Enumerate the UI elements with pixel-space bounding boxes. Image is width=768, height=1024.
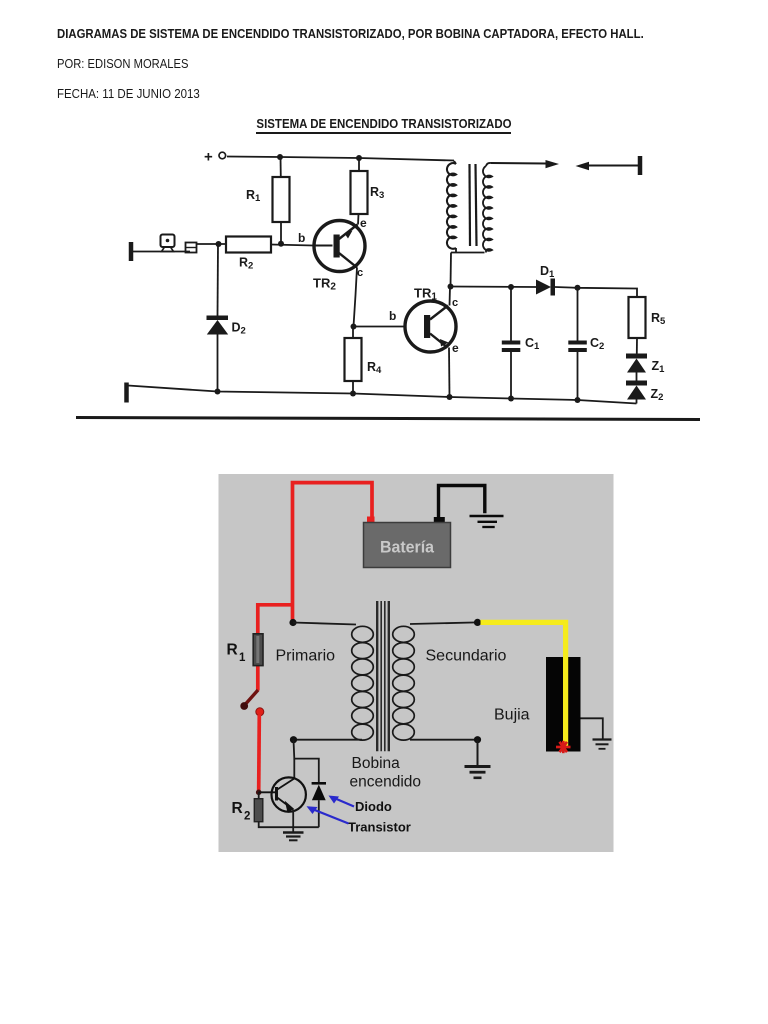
spark star bbox=[556, 741, 571, 753]
wire TR1 emitter down to ground rail bbox=[448, 348, 451, 398]
ground rail terminal bar bbox=[124, 383, 129, 403]
wire input lead bbox=[133, 251, 190, 253]
primary winding loops bbox=[352, 626, 374, 740]
wire base node to TR1 bbox=[354, 326, 407, 328]
ground battery negative bbox=[470, 515, 504, 518]
date line bbox=[57, 87, 200, 101]
arrow to transistor blue bbox=[311, 809, 349, 824]
node dot primary top bbox=[289, 619, 296, 626]
svg-text:C1: C1 bbox=[525, 336, 540, 352]
document title line bbox=[57, 27, 644, 41]
wire R1 top lead bbox=[280, 157, 282, 177]
transformer core bbox=[376, 601, 378, 751]
ground transistor emitter bbox=[292, 827, 294, 832]
wire top rail bbox=[227, 157, 454, 161]
svg-text:Primario: Primario bbox=[276, 648, 336, 665]
spark plug electrode yellow bbox=[563, 657, 568, 746]
svg-text:e: e bbox=[452, 341, 459, 355]
node junction dot top rail R1 bbox=[277, 154, 283, 160]
diode D2 bbox=[207, 316, 229, 321]
baseline rule under schematic bbox=[76, 418, 700, 420]
svg-text:R: R bbox=[227, 642, 238, 659]
svg-text:C2: C2 bbox=[590, 336, 604, 352]
svg-text:D1: D1 bbox=[540, 264, 555, 280]
resistor R1 bbox=[273, 177, 290, 222]
wire TR2 collector down to node bbox=[354, 268, 358, 327]
spark gap arrow left bbox=[576, 162, 590, 171]
svg-text:Z1: Z1 bbox=[652, 359, 666, 375]
resistor R2 body bbox=[258, 792, 260, 800]
wire R1 bottom lead to base node bbox=[280, 222, 282, 244]
svg-text:R5: R5 bbox=[651, 311, 666, 327]
resistor R3 bbox=[351, 171, 368, 214]
svg-text:Z2: Z2 bbox=[651, 387, 664, 403]
node dot secondary top bbox=[474, 619, 481, 626]
ground secondary bbox=[477, 740, 479, 766]
zener diode Z1 bbox=[626, 354, 647, 359]
switch blade bbox=[244, 690, 258, 706]
wire R3 to TR2 emitter bbox=[357, 214, 360, 225]
svg-text:c: c bbox=[452, 297, 458, 309]
resistor R1 body bbox=[256, 663, 260, 691]
node junction dot ground R4 bbox=[350, 391, 356, 397]
battery positive terminal bbox=[367, 517, 375, 524]
wire battery negative black bbox=[439, 486, 485, 519]
wire ground rail bbox=[128, 386, 637, 404]
node junction dot collector node bbox=[448, 284, 454, 290]
capacitor C1 bbox=[510, 287, 512, 341]
diode D1 bbox=[536, 280, 551, 295]
svg-text:Diodo: Diodo bbox=[355, 799, 392, 814]
svg-text:R1: R1 bbox=[246, 188, 261, 204]
transformer T1 primary winding bbox=[447, 161, 456, 249]
svg-text:R: R bbox=[232, 800, 243, 817]
node junction dot C2 branch bbox=[575, 285, 581, 291]
svg-text:R3: R3 bbox=[370, 185, 384, 201]
svg-text:Batería: Batería bbox=[380, 538, 435, 557]
node junction dot ground TR1 bbox=[447, 394, 453, 400]
transformer T1 core bbox=[468, 164, 471, 246]
battery body bbox=[364, 523, 451, 568]
wire R4 bottom lead bbox=[352, 381, 354, 394]
transistor TR1 bbox=[405, 301, 456, 352]
svg-text:D2: D2 bbox=[232, 321, 246, 337]
wire TR1 collector up to node bbox=[449, 287, 452, 306]
svg-text:encendido: encendido bbox=[350, 774, 422, 791]
author line bbox=[57, 57, 188, 71]
resistor R2 bbox=[226, 237, 271, 253]
resistor R5 bbox=[629, 297, 646, 338]
svg-text:b: b bbox=[298, 231, 305, 245]
wire transformer bottom tie bbox=[451, 248, 485, 253]
arrow to diode blue bbox=[333, 798, 354, 807]
wire Z2 to ground rail bbox=[636, 400, 638, 404]
node junction dot ground C2 bbox=[575, 397, 581, 403]
wire pickup to R2 bbox=[197, 243, 227, 245]
transistor Q1 bbox=[272, 777, 306, 811]
input terminal bar bbox=[129, 242, 134, 261]
node dot base bbox=[256, 790, 262, 796]
pickup connector box bbox=[186, 243, 197, 253]
wire secondary to spark gap bbox=[491, 162, 546, 165]
node junction dot top rail R3 bbox=[356, 155, 362, 161]
transistor TR2 bbox=[314, 221, 365, 272]
node junction dot TR1 base node bbox=[351, 324, 357, 330]
node junction dot base node bbox=[278, 241, 284, 247]
svg-text:e: e bbox=[360, 216, 367, 230]
wire primary bottom bbox=[293, 739, 362, 741]
wire Z1 to Z2 bbox=[636, 373, 638, 381]
svg-text:TR2: TR2 bbox=[313, 276, 336, 293]
wire R5 to Z1 bbox=[636, 338, 638, 354]
wire collector branch bbox=[294, 740, 319, 783]
svg-text:TR1: TR1 bbox=[414, 286, 437, 303]
wire battery positive red bbox=[293, 483, 373, 623]
pickup sensor symbol bbox=[161, 235, 175, 248]
resistor R4 bbox=[345, 338, 362, 381]
node junction dot ground C1 bbox=[508, 396, 514, 402]
wire red to R1 bbox=[258, 605, 293, 636]
wire R2 to TR2 base bbox=[271, 245, 313, 246]
diode protection bbox=[312, 782, 326, 785]
svg-text:b: b bbox=[389, 309, 396, 323]
svg-text:R2: R2 bbox=[239, 256, 253, 272]
svg-text:Bujia: Bujia bbox=[494, 707, 530, 724]
wire collector node to D1 bbox=[451, 286, 537, 289]
wire R3 top lead bbox=[358, 158, 360, 171]
heading underline bbox=[256, 132, 511, 134]
section heading bbox=[45, 116, 723, 131]
wire D2 to ground rail bbox=[217, 335, 219, 392]
wire yellow secondary to spark plug bbox=[481, 622, 566, 744]
wire emitter down bbox=[292, 810, 294, 828]
wire R4 top lead bbox=[352, 327, 354, 339]
spark plug body bbox=[546, 657, 581, 752]
ground spark plug bbox=[581, 718, 603, 739]
wire primary bottom down to TR1 collector node bbox=[450, 253, 453, 287]
svg-text:2: 2 bbox=[244, 811, 250, 823]
node dot secondary bottom bbox=[474, 736, 481, 743]
output terminal bar bbox=[638, 156, 643, 175]
svg-text:Transistor: Transistor bbox=[348, 820, 411, 835]
wire secondary top bbox=[410, 622, 478, 624]
node dot primary bottom bbox=[290, 736, 297, 743]
zener diode Z2 bbox=[626, 381, 647, 386]
gray image background bbox=[219, 474, 614, 852]
svg-text:R4: R4 bbox=[367, 360, 382, 376]
wire secondary bottom bbox=[410, 739, 478, 741]
battery negative terminal bbox=[434, 517, 445, 524]
transformer T1 secondary winding bbox=[483, 163, 492, 251]
wire R2 bottom to emitter rail bbox=[259, 822, 319, 828]
capacitor C2 bbox=[577, 288, 579, 341]
wire D1 to R5 corner bbox=[555, 287, 637, 297]
svg-text:+: + bbox=[204, 149, 213, 166]
svg-text:c: c bbox=[357, 267, 363, 279]
secondary winding loops bbox=[393, 626, 415, 740]
wire primary top bbox=[293, 623, 356, 625]
svg-text:1: 1 bbox=[239, 652, 246, 664]
svg-text:Secundario: Secundario bbox=[426, 648, 507, 665]
wire switch to R2 red bbox=[257, 715, 261, 791]
wire D2 branch down bbox=[217, 244, 220, 316]
node junction dot C1 branch bbox=[508, 284, 514, 290]
svg-text:Bobina: Bobina bbox=[352, 755, 401, 772]
node junction dot D2 branch bbox=[216, 241, 222, 247]
node junction dot ground D2 bbox=[215, 389, 221, 395]
